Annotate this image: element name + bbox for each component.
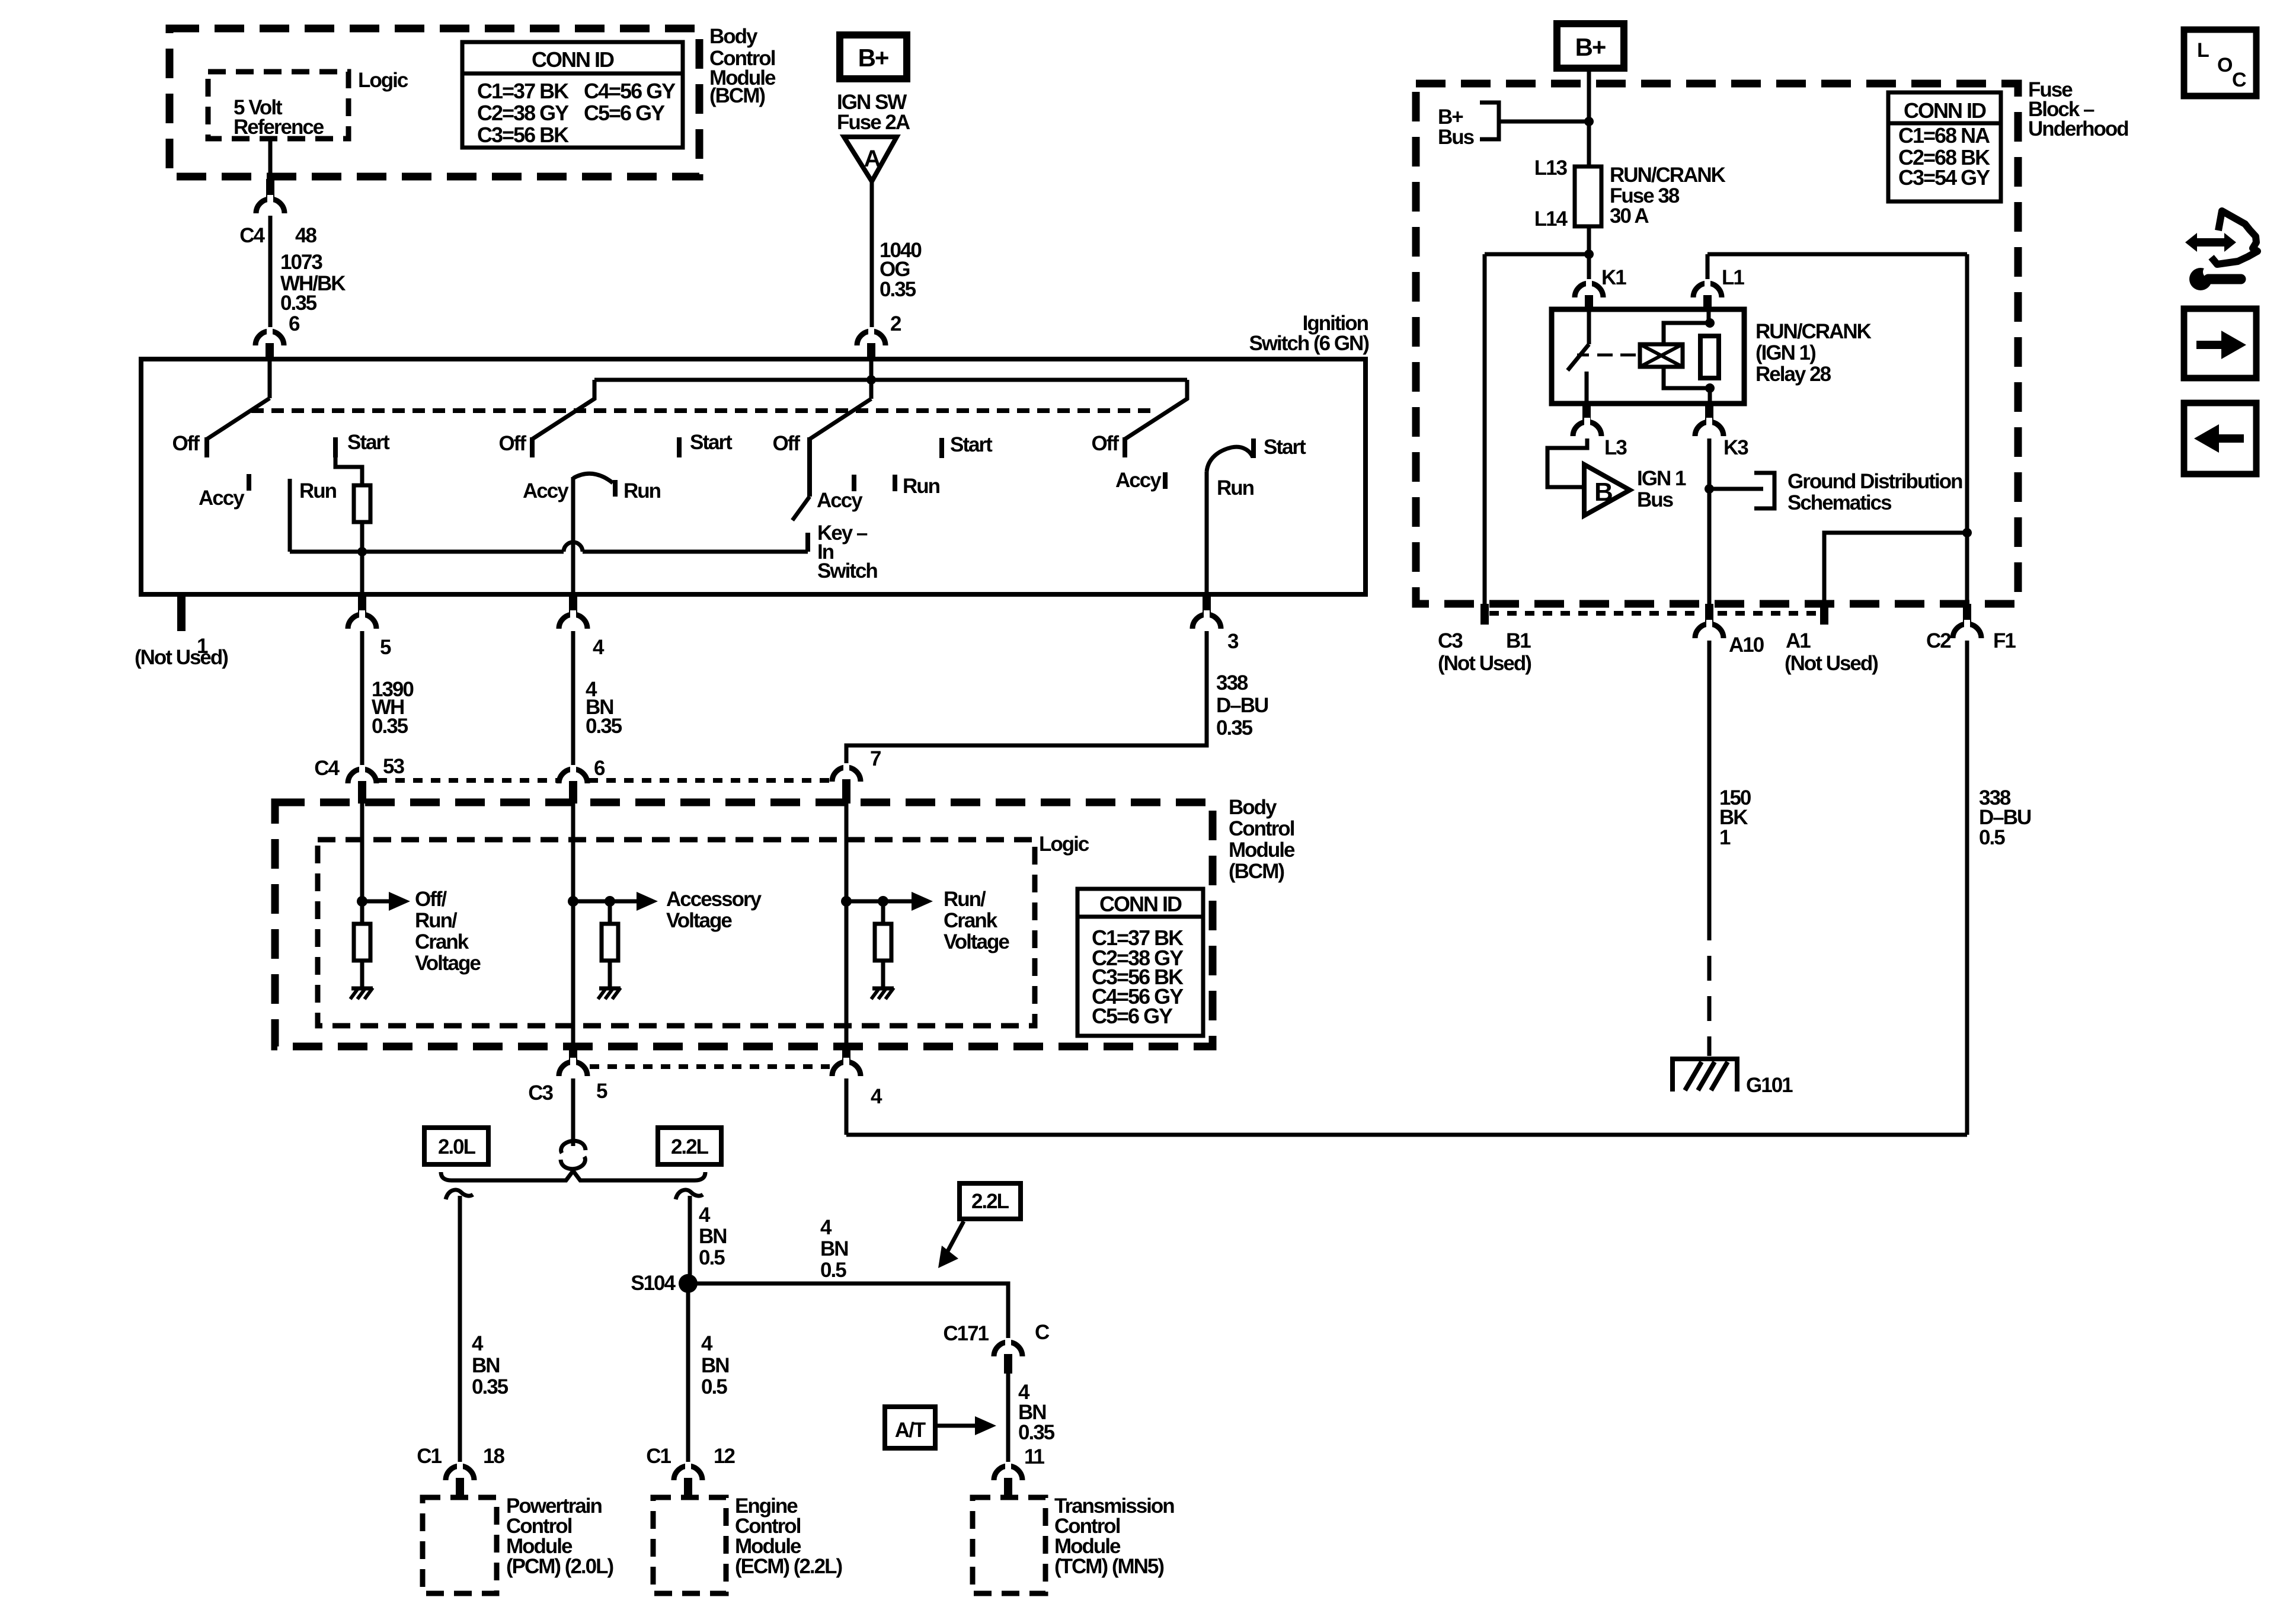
wire B+ into fuse block (1587, 68, 1591, 167)
svg-text:C1=37 BK: C1=37 BK (477, 79, 569, 103)
svg-text:CONN ID: CONN ID (1904, 98, 1986, 123)
key-in arm diagonal (792, 497, 810, 520)
splice S104 (679, 1274, 698, 1293)
wire L3 to IGN1 Bus triangle (1547, 438, 1587, 487)
svg-text:6: 6 (289, 312, 300, 335)
bus wire wafer2 top (594, 378, 1187, 382)
svg-text:Accessory: Accessory (666, 888, 762, 911)
svg-text:0.5: 0.5 (699, 1246, 725, 1269)
svg-text:B: B (1594, 478, 1612, 507)
svg-text:(Not Used): (Not Used) (1785, 652, 1878, 675)
wire resistor 3 to ground (881, 961, 885, 988)
connector C171 pin C (994, 1342, 1022, 1356)
svg-text:C1: C1 (646, 1445, 671, 1468)
relay coil box with X (1640, 344, 1683, 367)
contact tick Run (wafer 3) (893, 475, 897, 491)
svg-text:BN: BN (701, 1354, 729, 1377)
pin 4 connector (569, 594, 577, 614)
svg-text:Start: Start (347, 431, 390, 454)
svg-text:Reference: Reference (234, 116, 324, 139)
dotted connector row (BCM top) (378, 778, 558, 783)
ignition switch box (141, 359, 1366, 594)
icon vehicle routing (double arrow) (2185, 233, 2236, 252)
switch wafer 2 arm (Off) (532, 380, 594, 439)
svg-text:Bus: Bus (1438, 126, 1475, 149)
svg-text:Body: Body (1229, 796, 1277, 819)
ground G101 (1673, 1059, 1737, 1092)
junction dot (off/run/crank sense) (357, 896, 367, 907)
svg-text:BN: BN (820, 1237, 848, 1260)
wire to ground distribution bracket (1709, 487, 1763, 491)
fuse symbol A (IGN SW Fuse 2A) (844, 137, 897, 181)
module box PCM (423, 1497, 497, 1593)
tag box A/T (885, 1407, 935, 1448)
connector C1 pin 18 (446, 1466, 474, 1480)
wire A1 jog (1824, 533, 1967, 604)
power symbol B+ (fuse block) (1557, 24, 1624, 68)
branch hook 2.0L (446, 1190, 473, 1199)
switch wafer 3 arm (Off / Key-In) (869, 359, 874, 399)
resistor pulldown 2 (602, 924, 618, 961)
svg-text:Module: Module (1229, 838, 1295, 862)
svg-text:5: 5 (596, 1080, 607, 1103)
pin 1 stub (Not Used) (177, 594, 186, 631)
svg-text:2.0L: 2.0L (438, 1135, 476, 1158)
wire break symbol (split) (561, 1141, 586, 1153)
ground (BCM logic 3) (872, 987, 894, 991)
svg-text:L1: L1 (1722, 266, 1744, 289)
svg-text:IGN 1: IGN 1 (1637, 467, 1686, 490)
svg-text:Off: Off (172, 432, 200, 455)
junction dot fuse out (1584, 249, 1594, 259)
wire S104 to C171 (696, 1283, 1008, 1342)
svg-text:0.5: 0.5 (820, 1259, 846, 1282)
svg-text:Off/: Off/ (415, 888, 447, 911)
svg-text:A1: A1 (1786, 629, 1811, 652)
junction dot pin5/bus (357, 547, 367, 556)
branch hook 2.2L (676, 1190, 703, 1199)
svg-text:Crank: Crank (944, 909, 998, 932)
key-in switch fixed contact (805, 533, 810, 552)
resistor pulldown 1 (354, 924, 370, 961)
logic box (5 Volt Reference) (208, 72, 348, 139)
wire C4-53 into logic (360, 804, 364, 901)
wire pin7 through BCM to C3-4 (845, 804, 849, 1046)
svg-text:18: 18 (483, 1445, 504, 1468)
junction dot (accessory sense) (568, 896, 578, 907)
svg-text:L3: L3 (1604, 436, 1627, 459)
junction dot bus/pin2 (866, 375, 876, 385)
svg-text:3: 3 (1227, 630, 1239, 653)
svg-text:(ECM) (2.2L): (ECM) (2.2L) (735, 1555, 842, 1578)
svg-text:A10: A10 (1729, 633, 1764, 657)
relay actuator dashed link (1597, 354, 1639, 357)
wire 4 BN (571, 631, 575, 767)
connector pin 11 (994, 1466, 1022, 1480)
connector K1 (1575, 283, 1603, 297)
svg-text:C1: C1 (417, 1445, 442, 1468)
svg-text:0.35: 0.35 (586, 715, 622, 738)
svg-text:48: 48 (295, 224, 316, 247)
svg-text:Accy: Accy (199, 486, 245, 510)
switch wafer 4 arm (Off) (1125, 380, 1187, 439)
contact tick Start (wafer 3) (939, 438, 944, 458)
svg-text:0.35: 0.35 (472, 1375, 509, 1398)
svg-text:C4=56 GY: C4=56 GY (584, 79, 676, 103)
wire S104 to ECM (686, 1283, 690, 1467)
wire 4 BN 0.35 to PCM (458, 1196, 462, 1467)
svg-text:Run: Run (623, 479, 661, 502)
contact tick Accy (wafer 1) (247, 474, 251, 491)
svg-text:RUN/CRANK: RUN/CRANK (1610, 164, 1726, 187)
connector C3 pin 4 (842, 1046, 850, 1062)
wire Start contact to resistor (335, 457, 362, 485)
svg-text:C5=6 GY: C5=6 GY (584, 101, 665, 125)
dotted connector row (fuse block bottom) (1489, 611, 1701, 616)
connector pin 6 (BCM) (559, 769, 587, 783)
contact Accy wire (wafer 2) to pin 4 (571, 477, 575, 594)
pin 5 connector (358, 594, 366, 614)
wire L1 into relay (1707, 311, 1711, 323)
contact tick Run (wafer 2) (613, 480, 618, 497)
ground (BCM logic 1) (351, 987, 373, 991)
svg-text:Fuse 2A: Fuse 2A (837, 111, 910, 134)
curve Accy-Run (wafer 2) (573, 473, 613, 483)
wire 338 D-BU to BCM (846, 631, 1207, 767)
svg-text:C: C (1035, 1321, 1050, 1344)
wire C3-5 down to split (571, 1078, 575, 1146)
logic box (BCM logic) (318, 840, 1035, 1026)
wire hop over pin 4 wire (564, 542, 583, 552)
svg-text:C3: C3 (528, 1081, 553, 1105)
fuse RUN/CRANK Fuse 38 30A (1575, 167, 1601, 226)
wire drop to B1 (1483, 254, 1487, 604)
fuse block box (dashed) (1416, 84, 2018, 604)
relay fixed contact to L3 (1585, 372, 1589, 404)
junction dot ground distribution (1705, 484, 1714, 494)
svg-text:0.35: 0.35 (1018, 1421, 1055, 1444)
svg-text:2: 2 (890, 312, 901, 335)
wire 338 D-BU 0.5 (1965, 641, 1969, 1135)
wire L1 top (1707, 252, 1967, 257)
svg-text:C5=6 GY: C5=6 GY (1092, 1004, 1173, 1028)
svg-text:0.5: 0.5 (1979, 826, 2005, 849)
wire 338 return to BCM C3-4 (846, 1133, 1967, 1137)
svg-text:L14: L14 (1534, 207, 1568, 231)
svg-text:4: 4 (593, 636, 605, 659)
svg-text:1: 1 (1719, 826, 1731, 849)
module box Body Control Module (BCM) top (170, 28, 699, 177)
tag box 2.2L (split) (658, 1128, 721, 1164)
switch wafer 1 arm (Off) (207, 398, 270, 439)
wire L1 down (1706, 254, 1710, 281)
svg-text:Start: Start (1264, 436, 1306, 459)
wire 1390 WH (360, 631, 364, 767)
svg-text:Run: Run (299, 479, 337, 502)
tag box 2.2L (arrow) (960, 1183, 1021, 1219)
svg-text:4: 4 (472, 1332, 484, 1355)
table CONN ID (BCM middle) (1077, 889, 1203, 1036)
svg-text:53: 53 (383, 755, 404, 778)
svg-text:B1: B1 (1506, 629, 1531, 652)
power symbol B+ (ignition switch feed) (840, 35, 907, 79)
svg-text:Voltage: Voltage (944, 930, 1009, 953)
wire fuse to relay junction (1587, 226, 1591, 281)
svg-text:4: 4 (701, 1332, 713, 1355)
relay switch arm (1587, 311, 1591, 344)
svg-text:C1=68 NA: C1=68 NA (1898, 123, 1990, 148)
wire 150 BK (1707, 641, 1712, 916)
svg-text:C2=38 GY: C2=38 GY (477, 101, 569, 125)
svg-text:K1: K1 (1601, 266, 1626, 289)
svg-text:Crank: Crank (415, 930, 469, 953)
module box Body Control Module (BCM) middle (275, 802, 1213, 1046)
svg-text:(BCM): (BCM) (1229, 860, 1284, 883)
bracket ground distribution (1754, 473, 1774, 508)
svg-text:BN: BN (699, 1225, 727, 1248)
contact tick Start (wafer 4) (1251, 438, 1256, 458)
svg-text:1073: 1073 (280, 251, 322, 274)
svg-text:6: 6 (594, 757, 605, 780)
wire 4 BN 0.5 upper (688, 1196, 692, 1275)
svg-text:Accy: Accy (817, 489, 863, 512)
tag box 2.0L (424, 1128, 488, 1164)
B+ Bus bracket (1480, 103, 1499, 139)
ground (BCM logic 2) (599, 987, 621, 991)
svg-text:BN: BN (472, 1354, 500, 1377)
dashed gang line (251, 408, 1152, 413)
connector C4 pin 48 (256, 199, 284, 213)
junction dot A1/C2 (1962, 528, 1972, 537)
svg-text:2.2L: 2.2L (971, 1190, 1009, 1213)
svg-text:0.5: 0.5 (701, 1375, 727, 1398)
legend box L O C (2184, 30, 2256, 96)
wire resistor 1 to ground (360, 961, 364, 988)
connector C4 pin 53 (348, 769, 376, 783)
module box TCM (973, 1497, 1045, 1593)
pin 3 connector (1203, 594, 1211, 614)
svg-text:C171: C171 (943, 1322, 989, 1345)
svg-text:Logic: Logic (358, 69, 408, 92)
svg-text:L13: L13 (1534, 156, 1568, 180)
svg-text:11: 11 (1024, 1445, 1045, 1468)
svg-text:C4: C4 (239, 224, 265, 247)
connector pin 2 (857, 331, 885, 345)
junction dot coil bottom (1705, 383, 1715, 393)
svg-text:5: 5 (380, 636, 391, 659)
connector B1 stub (Not Used) (1480, 604, 1489, 625)
connector A10 (1705, 604, 1713, 624)
arrow A/T to wire (935, 1424, 978, 1428)
wire resistor to pin 5 (360, 522, 364, 594)
contact Run (wafer 1) (288, 479, 292, 552)
svg-text:Control: Control (1229, 817, 1294, 840)
svg-text:C: C (2232, 69, 2246, 91)
relay box RUN/CRANK (IGN 1) Relay 28 (1552, 309, 1744, 404)
arrow Accessory Voltage (610, 900, 640, 904)
svg-text:Voltage: Voltage (415, 952, 481, 975)
legend box arrow right (2184, 309, 2256, 378)
svg-text:RUN/CRANK: RUN/CRANK (1755, 320, 1872, 343)
svg-text:0.35: 0.35 (880, 278, 916, 301)
bus symbol IGN 1 Bus (triangle B) (1584, 465, 1630, 516)
split brace (441, 1171, 705, 1180)
wire junction to B1 drop (1485, 252, 1589, 257)
svg-text:12: 12 (714, 1445, 735, 1468)
svg-text:Start: Start (690, 431, 733, 454)
table CONN ID (fuse block) (1888, 92, 2001, 201)
connector pin 7 (BCM) (832, 767, 861, 782)
svg-text:L: L (2197, 39, 2209, 62)
connector K3 (1705, 404, 1713, 422)
svg-text:0.35: 0.35 (280, 292, 317, 315)
wire B+ bus to junction (1499, 120, 1589, 124)
svg-text:Switch: Switch (817, 559, 877, 582)
svg-text:Run/: Run/ (415, 909, 458, 932)
svg-text:(IGN 1): (IGN 1) (1755, 341, 1815, 364)
svg-text:A: A (864, 146, 881, 172)
resistor (start bypass) (354, 485, 370, 522)
svg-text:Switch (6 GN): Switch (6 GN) (1249, 332, 1368, 355)
wire to pulldown resistor 2 (608, 901, 612, 924)
svg-text:G101: G101 (1746, 1074, 1793, 1097)
junction dot coil top (1705, 318, 1715, 328)
svg-text:30 A: 30 A (1610, 204, 1649, 228)
wire to pulldown resistor 3 (881, 901, 885, 924)
svg-text:C3: C3 (1438, 629, 1463, 652)
svg-text:C3=54 GY: C3=54 GY (1898, 165, 1990, 190)
svg-text:A/T: A/T (895, 1419, 926, 1442)
contact tick Accy (wafer 3) (852, 475, 856, 491)
svg-text:338: 338 (1216, 671, 1248, 694)
arrow 2.2L to wire (946, 1221, 964, 1254)
connector L1 (1693, 283, 1722, 297)
relay internal resistor (1700, 336, 1719, 378)
icon wrench (2189, 268, 2212, 290)
svg-text:(BCM): (BCM) (709, 84, 765, 107)
svg-text:7: 7 (870, 747, 881, 770)
wire 1040 OG (870, 181, 874, 328)
svg-text:Start: Start (950, 433, 993, 456)
svg-text:4: 4 (699, 1204, 711, 1227)
svg-text:0.35: 0.35 (372, 715, 408, 738)
wire to accessory arrow (573, 900, 610, 904)
relay contact tick (1577, 354, 1589, 357)
svg-text:Off: Off (498, 432, 526, 455)
svg-text:(TCM) (MN5): (TCM) (MN5) (1054, 1555, 1163, 1578)
svg-text:Run: Run (903, 475, 940, 498)
svg-text:O: O (2217, 54, 2233, 76)
svg-text:B+: B+ (1575, 33, 1606, 61)
resistor pulldown 3 (875, 924, 891, 961)
icon vehicle routing (outline) (2211, 211, 2257, 264)
svg-text:C3=56 BK: C3=56 BK (477, 123, 569, 147)
svg-text:C4: C4 (314, 757, 340, 780)
arrow Run/Crank Voltage (883, 900, 915, 904)
wire 5V ref to connector C4-48 (268, 139, 273, 179)
svg-text:(Not Used): (Not Used) (1438, 652, 1531, 675)
svg-text:B+: B+ (858, 44, 888, 72)
bus wire Run/Key-In (290, 550, 564, 554)
wire to run/crank arrow (846, 900, 883, 904)
connector C1 pin 12 (674, 1466, 702, 1480)
wire pin6 through BCM to C3-5 (571, 804, 575, 1046)
junction dot B+ bus (1584, 117, 1594, 126)
svg-text:S104: S104 (631, 1272, 676, 1295)
contact Run wire (wafer 4) to pin 3 (1205, 472, 1209, 594)
svg-text:Logic: Logic (1039, 833, 1089, 856)
svg-text:Off: Off (772, 432, 800, 455)
legend box arrow left (2184, 403, 2256, 474)
table CONN ID (BCM) (462, 42, 683, 148)
junction dot (run/crank resistor) (878, 896, 888, 907)
svg-text:CONN ID: CONN ID (532, 47, 614, 72)
svg-text:Accy: Accy (1115, 469, 1162, 492)
connector C2 F1 (1963, 604, 1971, 624)
module box ECM (653, 1497, 726, 1593)
connector A1 stub (Not Used) (1820, 604, 1828, 625)
relay coil wiring to resistor (1664, 323, 1710, 344)
svg-text:Accy: Accy (523, 479, 569, 502)
wire resistor 2 to ground (608, 961, 612, 988)
wire 1073 WH/BK (268, 216, 273, 328)
svg-text:Underhood: Underhood (2028, 117, 2128, 140)
svg-text:Off: Off (1091, 432, 1119, 455)
junction dot (accessory resistor) (605, 896, 615, 907)
contact tick Start (wafer 1) (333, 437, 338, 457)
svg-text:2.2L: 2.2L (671, 1135, 709, 1158)
svg-text:Voltage: Voltage (666, 909, 732, 932)
wire drop to C2-F1 (1965, 254, 1969, 604)
contact tick Start (wafer 2) (677, 437, 682, 457)
svg-text:Relay 28: Relay 28 (1755, 363, 1831, 386)
junction dot (run/crank sense) (841, 896, 852, 907)
svg-text:Ground Distribution: Ground Distribution (1787, 470, 1962, 493)
wire 4 BN 0.35 to TCM (1006, 1374, 1011, 1467)
connector C3 pin 5 (569, 1046, 577, 1062)
svg-text:0.35: 0.35 (1216, 716, 1253, 740)
svg-text:D–BU: D–BU (1216, 694, 1268, 717)
svg-text:CONN ID: CONN ID (1099, 892, 1182, 916)
svg-text:Bus: Bus (1637, 488, 1674, 511)
dotted connector row (BCM bottom) (590, 1064, 830, 1069)
svg-text:Run/: Run/ (944, 888, 986, 911)
svg-text:(Not Used): (Not Used) (135, 646, 228, 669)
svg-text:Schematics: Schematics (1787, 491, 1892, 514)
svg-text:Body: Body (709, 25, 758, 48)
arrow Off/Run/Crank Voltage (362, 900, 392, 904)
wire K3 down (1707, 438, 1712, 604)
wire 150 BK dashed section (1707, 916, 1712, 1056)
connector pin 6 (255, 331, 284, 345)
svg-text:(PCM) (2.0L): (PCM) (2.0L) (506, 1555, 613, 1578)
svg-text:Run: Run (1217, 476, 1254, 500)
connector L3 (1582, 404, 1591, 422)
wire coil to K3 (1708, 388, 1712, 404)
curve Run-Start (wafer 4) (1207, 447, 1253, 472)
svg-text:4: 4 (871, 1085, 882, 1108)
svg-text:K3: K3 (1723, 436, 1748, 459)
wire pin6 into wafer 1 (268, 359, 272, 398)
svg-text:C2: C2 (1926, 629, 1951, 652)
contact tick Accy (wafer 4) (1163, 472, 1168, 489)
svg-text:4: 4 (820, 1216, 832, 1239)
wire to pulldown resistor 1 (360, 901, 364, 924)
svg-text:F1: F1 (1993, 629, 2016, 652)
